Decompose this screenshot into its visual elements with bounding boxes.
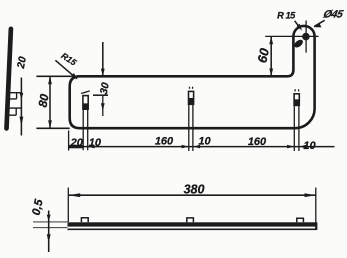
slot right extension lines: [294, 105, 299, 151]
svg-text:20: 20: [70, 137, 84, 149]
slot middle extension lines: [189, 104, 193, 151]
dimension 60 line: [270, 36, 272, 76]
svg-text:30: 30: [98, 81, 112, 95]
slot left top tick: [81, 91, 90, 94]
side view strip (left edge view): [7, 29, 11, 129]
chain arrows mid group: [182, 145, 189, 149]
leader phi45: [314, 20, 324, 26]
bottom view tab 1: [81, 218, 88, 223]
side view tab 2: [9, 108, 21, 115]
slot right: [294, 94, 299, 106]
bottom view right end cap: [316, 222, 318, 230]
bottom view strip band: [68, 222, 317, 226]
svg-text:160: 160: [248, 136, 267, 148]
slot right top dots: [295, 89, 299, 91]
svg-text:10: 10: [303, 140, 316, 152]
slot middle top dots: [190, 87, 193, 89]
chain arrows left group: [69, 145, 84, 148]
svg-text:10: 10: [89, 137, 102, 149]
dimension 20 (side view) line: [20, 78, 22, 136]
svg-text:R 15: R 15: [277, 11, 296, 21]
dimension 30 lower line: [102, 95, 104, 116]
svg-text:380: 380: [184, 182, 205, 196]
svg-text:20: 20: [15, 55, 29, 70]
hole center line horizontal: [265, 35, 318, 37]
dimension 80 line: [49, 76, 51, 128]
bottom view left thin extension lines: [33, 222, 68, 228]
main view outline: [70, 26, 315, 128]
slot middle: [189, 91, 194, 104]
side view tab 1: [10, 93, 22, 99]
dimension 380 line: [68, 194, 315, 196]
dimension 80 extension bottom: [36, 127, 69, 129]
slot left extension lines: [83, 109, 88, 150]
dimension 0,5 line: [48, 211, 50, 253]
chain extension left edge: [68, 131, 70, 151]
dimension 80 extension top: [36, 75, 71, 77]
dimension 20 arrow lower: [20, 117, 24, 127]
svg-text:160: 160: [155, 135, 174, 147]
dimension 20 arrow upper: [20, 93, 24, 100]
smudge wedge at hole: [293, 38, 305, 49]
chain arrows right group: [287, 145, 294, 149]
hole center line vertical: [305, 21, 307, 53]
svg-text:0,5: 0,5: [31, 198, 46, 217]
dimension 30 upper line: [102, 42, 104, 76]
leader R15 top-right: [295, 21, 301, 29]
leader R15 top-left: [55, 60, 76, 78]
svg-text:10: 10: [198, 136, 211, 148]
bottom view tab 3: [297, 218, 304, 222]
svg-text:R15: R15: [59, 51, 78, 68]
slot left: [83, 96, 88, 110]
bottom view tab 2: [187, 218, 194, 222]
dimension 30 tick: [93, 94, 108, 96]
svg-text:80: 80: [36, 92, 52, 108]
svg-text:60: 60: [254, 46, 272, 64]
bottom dim chain line: [69, 146, 335, 148]
bottom view strip lower line: [68, 228, 317, 230]
dimension 380 extensions: [68, 188, 315, 230]
hole circle: [303, 33, 309, 39]
svg-text:Ø45: Ø45: [322, 9, 345, 21]
